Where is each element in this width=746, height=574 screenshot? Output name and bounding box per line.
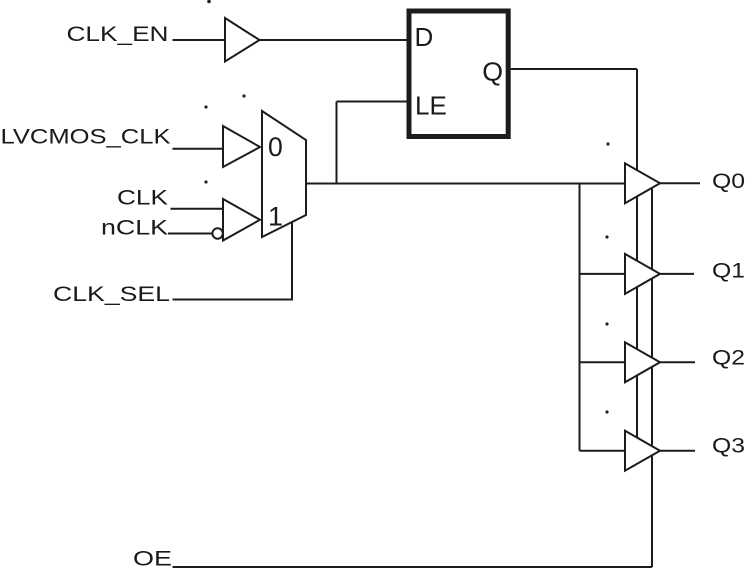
buffer U8 Q2 [625, 342, 660, 382]
svg-text:1: 1 [268, 201, 283, 231]
buffer U3 LVCMOS_CLK [223, 126, 260, 167]
node dot f [605, 322, 608, 325]
buffer U4 differential CLK/nCLK [223, 199, 260, 241]
wire Q-net vertical from latch Q down output buffer column [636, 69, 638, 446]
svg-text:CLK_SEL: CLK_SEL [53, 282, 170, 306]
svg-text:0: 0 [268, 132, 283, 162]
latch U2 [409, 11, 508, 137]
buffer U6 Q0 [625, 163, 660, 203]
svg-text:LE: LE [415, 91, 447, 121]
node dot e [605, 235, 608, 238]
wire LE branch vertical [336, 102, 338, 184]
buffer U9 Q3 [625, 431, 660, 471]
svg-text:Q2: Q2 [712, 346, 745, 370]
svg-text:Q: Q [482, 59, 503, 87]
inversion bubble nCLK [212, 228, 222, 238]
buffer U7 Q1 [625, 254, 660, 294]
wire CLK input [171, 208, 224, 210]
svg-text:LVCMOS_CLK: LVCMOS_CLK [1, 125, 172, 149]
wire stub Q3 input [580, 450, 626, 452]
svg-text:nCLK: nCLK [101, 216, 169, 240]
wire OE-net vertical up output buffer column [651, 186, 653, 567]
wire nCLK input [168, 233, 212, 235]
wire LVCMOS_CLK input [173, 148, 224, 150]
svg-text:Q0: Q0 [712, 169, 745, 193]
wire LE branch horizontal [337, 101, 407, 103]
wire Q1 output [660, 273, 694, 275]
wire Q2 output [660, 361, 695, 363]
svg-text:Q1: Q1 [712, 258, 745, 282]
wire CLK_SEL horizontal [173, 299, 293, 301]
wire stub Q2 input [580, 361, 626, 363]
svg-text:CLK: CLK [117, 185, 169, 209]
wire buffer to D [260, 39, 407, 41]
wire stub Q1 input [580, 273, 626, 275]
node dot d [606, 142, 609, 145]
mux U5 [262, 111, 306, 237]
wire Q0 output [660, 182, 700, 184]
node dot b [204, 105, 207, 108]
wire OE horizontal [173, 566, 653, 568]
svg-text:CLK_EN: CLK_EN [67, 22, 169, 46]
wire Q3 output [660, 450, 695, 452]
node dot g [605, 410, 608, 413]
node dot top [207, 0, 211, 3]
wire Q output horizontal [511, 68, 637, 70]
svg-text:Q3: Q3 [712, 434, 745, 458]
wire mux output trunk [306, 183, 625, 185]
svg-text:D: D [415, 22, 434, 52]
svg-text:OE: OE [133, 547, 172, 571]
buffer U1 CLK_EN [225, 18, 260, 62]
node dot c [204, 180, 207, 183]
wire CLK_EN input [173, 39, 226, 41]
wire CLK_SEL vertical to mux [291, 222, 293, 301]
node dot artifacts [204, 0, 609, 414]
wire clock bus vertical [579, 184, 581, 451]
node dot a [242, 94, 245, 97]
